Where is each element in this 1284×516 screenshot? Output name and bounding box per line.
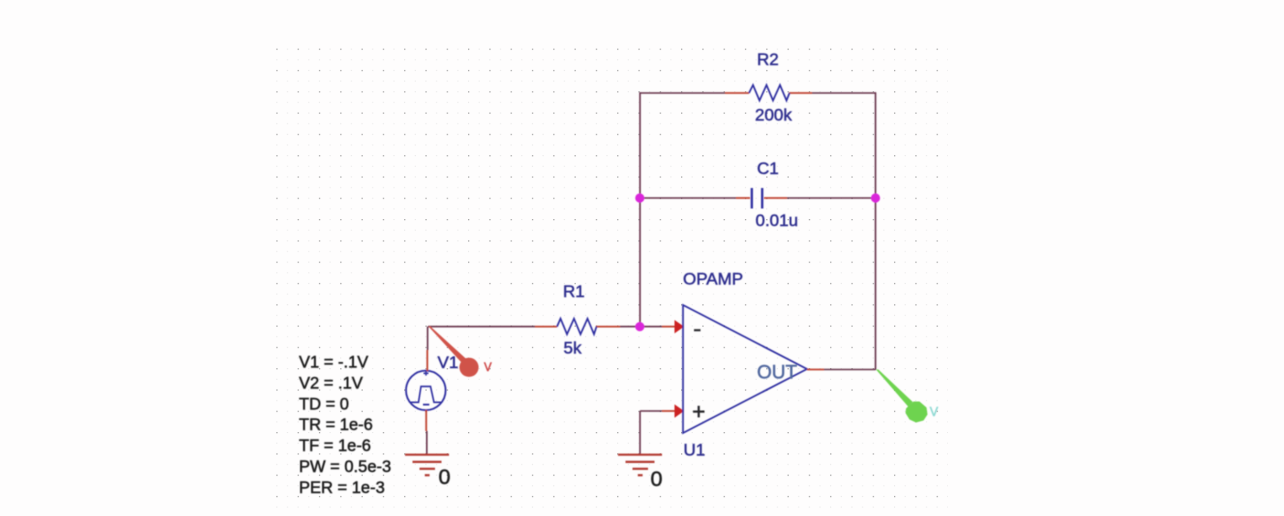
junction dot at right C1 node bbox=[871, 193, 880, 202]
capacitor C1 bbox=[736, 188, 787, 209]
V1 bottom pin lead bbox=[425, 410, 427, 431]
red voltage probe at V1 bbox=[428, 326, 478, 377]
pin arrow inverting input bbox=[675, 320, 685, 333]
output pin lead bbox=[807, 369, 824, 371]
wire: V1 bottom to ground bbox=[426, 431, 428, 454]
ground 0 under V1 bbox=[405, 455, 449, 476]
wire: V1 top corner vertical bbox=[427, 327, 429, 350]
svg-text:0.01u: 0.01u bbox=[756, 211, 799, 230]
svg-text:0: 0 bbox=[439, 465, 451, 489]
svg-text:V2 = .1V: V2 = .1V bbox=[299, 374, 363, 392]
svg-text:OPAMP: OPAMP bbox=[683, 269, 743, 288]
svg-text:PER = 1e-3: PER = 1e-3 bbox=[299, 479, 385, 497]
voltage source V1 circle bbox=[406, 371, 446, 411]
wire: feedback top (R2 branch) left segment bbox=[640, 92, 725, 94]
V1 pulse waveform bbox=[410, 386, 442, 402]
svg-text:R1: R1 bbox=[563, 282, 585, 301]
pin arrow noninverting input bbox=[675, 404, 685, 417]
V1 top pin lead bbox=[426, 350, 428, 371]
V1 plus mark bbox=[424, 371, 429, 376]
svg-text:OUT: OUT bbox=[757, 363, 798, 384]
svg-text:5k: 5k bbox=[564, 339, 582, 358]
svg-text:TR = 1e-6: TR = 1e-6 bbox=[299, 416, 373, 434]
wire: ground to noninverting input vertical bbox=[639, 411, 641, 454]
op-amp plus sign bbox=[693, 406, 705, 418]
svg-text:U1: U1 bbox=[684, 441, 706, 460]
wire: R1 to junction bbox=[620, 326, 662, 328]
svg-text:V1: V1 bbox=[438, 353, 459, 372]
green voltage probe at output bbox=[876, 370, 928, 423]
V1 minus mark bbox=[423, 404, 429, 406]
svg-text:R2: R2 bbox=[757, 50, 779, 69]
junction dot at inverting input node bbox=[635, 322, 644, 331]
wire: V1 to R1 horizontal bbox=[428, 326, 535, 328]
wire: output to right vertical bbox=[824, 369, 876, 371]
svg-text:200k: 200k bbox=[755, 106, 792, 125]
wire: C1 row left segment bbox=[640, 197, 736, 199]
svg-text:V1 = -.1V: V1 = -.1V bbox=[299, 354, 368, 372]
op-amp minus sign bbox=[694, 329, 701, 331]
resistor R1 bbox=[535, 319, 620, 335]
svg-text:V: V bbox=[484, 362, 492, 374]
op-amp U1 triangle bbox=[683, 305, 807, 433]
svg-text:TD = 0: TD = 0 bbox=[299, 395, 349, 413]
wire: left vertical of feedback loop bbox=[639, 92, 641, 327]
junction dot at left C1 node bbox=[635, 193, 644, 202]
svg-text:C1: C1 bbox=[757, 159, 779, 178]
resistor R2 bbox=[725, 85, 812, 101]
svg-text:TF = 1e-6: TF = 1e-6 bbox=[299, 437, 371, 455]
ground 0 under opamp bbox=[618, 455, 662, 476]
wire: C1 row right segment bbox=[787, 197, 876, 199]
pin lead into inverting input bbox=[662, 326, 676, 328]
svg-text:0: 0 bbox=[651, 467, 663, 491]
V1 source parameter text block bbox=[299, 354, 391, 497]
wire: ground to noninverting input horizontal bbox=[640, 410, 662, 412]
svg-text:PW = 0.5e-3: PW = 0.5e-3 bbox=[299, 458, 391, 476]
grid dots background bbox=[268, 40, 948, 508]
wire: right vertical of feedback loop bbox=[875, 92, 877, 370]
wire: feedback top right segment bbox=[812, 92, 876, 94]
svg-text:V: V bbox=[930, 405, 939, 419]
pin lead into noninverting input bbox=[662, 410, 676, 412]
